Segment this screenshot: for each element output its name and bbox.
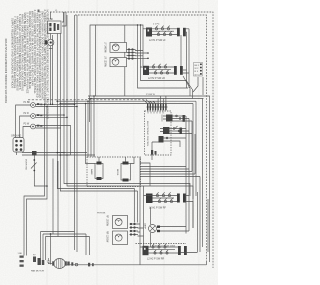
wire console verticals xyxy=(86,96,95,157)
wire staircase pair to bottom xyxy=(24,104,47,247)
speck xyxy=(38,10,40,13)
bottom long wire xyxy=(67,262,207,265)
terminal block TB1 xyxy=(47,19,62,34)
background streaks xyxy=(46,0,200,285)
infinite switch SW-LR row xyxy=(140,64,183,80)
paper noise xyxy=(0,0,1,1)
surface unit LR circle xyxy=(104,56,127,68)
wires bake box top feeds xyxy=(93,156,95,158)
bake broil box xyxy=(87,157,141,187)
wire burner feeds xyxy=(135,189,138,223)
wires RR cluster xyxy=(138,224,144,236)
wire door switch drop xyxy=(34,176,47,186)
wire from L1 to TB1 xyxy=(50,12,52,19)
surface unit LF circle xyxy=(104,42,127,53)
wires cluster to switch column xyxy=(135,51,148,59)
indicator light PL1 xyxy=(45,39,54,48)
wire merge right xyxy=(183,76,203,95)
bus B horizontals xyxy=(22,153,71,156)
round connector J1 xyxy=(11,135,24,152)
infinite switch SW-RR row xyxy=(140,244,187,261)
wire row1 to row2 xyxy=(180,35,182,67)
wire T2 T3 runs right xyxy=(35,115,67,117)
control sensor terminals xyxy=(151,136,186,160)
wire stubs TB1 right xyxy=(62,12,66,26)
oven box right edge xyxy=(180,192,198,253)
bus A horizontals xyxy=(88,96,210,262)
bus A left drop xyxy=(89,96,91,122)
wire between LF LR xyxy=(124,25,126,96)
bus C bottom-right horizontals xyxy=(140,167,200,177)
infinite switch SW-LF row xyxy=(143,26,186,42)
control board connector pins xyxy=(143,96,168,114)
electronic oven control box xyxy=(145,111,172,155)
wire right bus verticals xyxy=(186,116,195,234)
terminal T3 xyxy=(24,123,43,129)
notes text block (rotated) xyxy=(10,10,49,120)
wire vertical pair center-left xyxy=(74,15,76,250)
junction dots bus A xyxy=(50,95,95,105)
wire terminals left feeds to J1 xyxy=(16,105,31,138)
infinite switch SW-RF row xyxy=(144,192,186,209)
door switch chain xyxy=(25,151,37,176)
surface unit RR circle xyxy=(106,231,128,245)
convection motor xyxy=(48,259,67,269)
wires bake box right exits xyxy=(140,163,150,186)
control relay K2 xyxy=(160,126,192,134)
bottom bus elbows xyxy=(41,232,90,237)
terminal T1 xyxy=(24,102,43,108)
terminal T2 xyxy=(24,113,43,119)
motor aux contacts xyxy=(67,262,94,267)
terminal cluster right surface units xyxy=(130,223,139,236)
oven lamp xyxy=(144,207,190,247)
wire TB1 drops xyxy=(50,34,52,40)
console box top edge xyxy=(90,25,143,96)
wire console inner edge xyxy=(95,25,97,96)
connector P2 pins right xyxy=(194,63,203,77)
terminal cluster left surface units xyxy=(127,48,136,59)
wire oven feed drops through cluster xyxy=(138,25,189,88)
control relay K1 xyxy=(162,115,192,122)
wire supply drops xyxy=(64,12,193,199)
wire RF row right bends xyxy=(186,196,193,229)
bottom-left connector cluster xyxy=(31,252,46,273)
surface unit RF circle xyxy=(106,215,128,229)
oven box bottom edge xyxy=(136,243,187,245)
ground symbol xyxy=(47,258,50,264)
wire N top xyxy=(75,15,207,262)
wire L1 top dashed xyxy=(50,12,213,268)
screw terminals xyxy=(18,247,27,267)
wire J1 to bus B xyxy=(17,152,22,155)
part number (left edge rotated) xyxy=(4,38,8,103)
